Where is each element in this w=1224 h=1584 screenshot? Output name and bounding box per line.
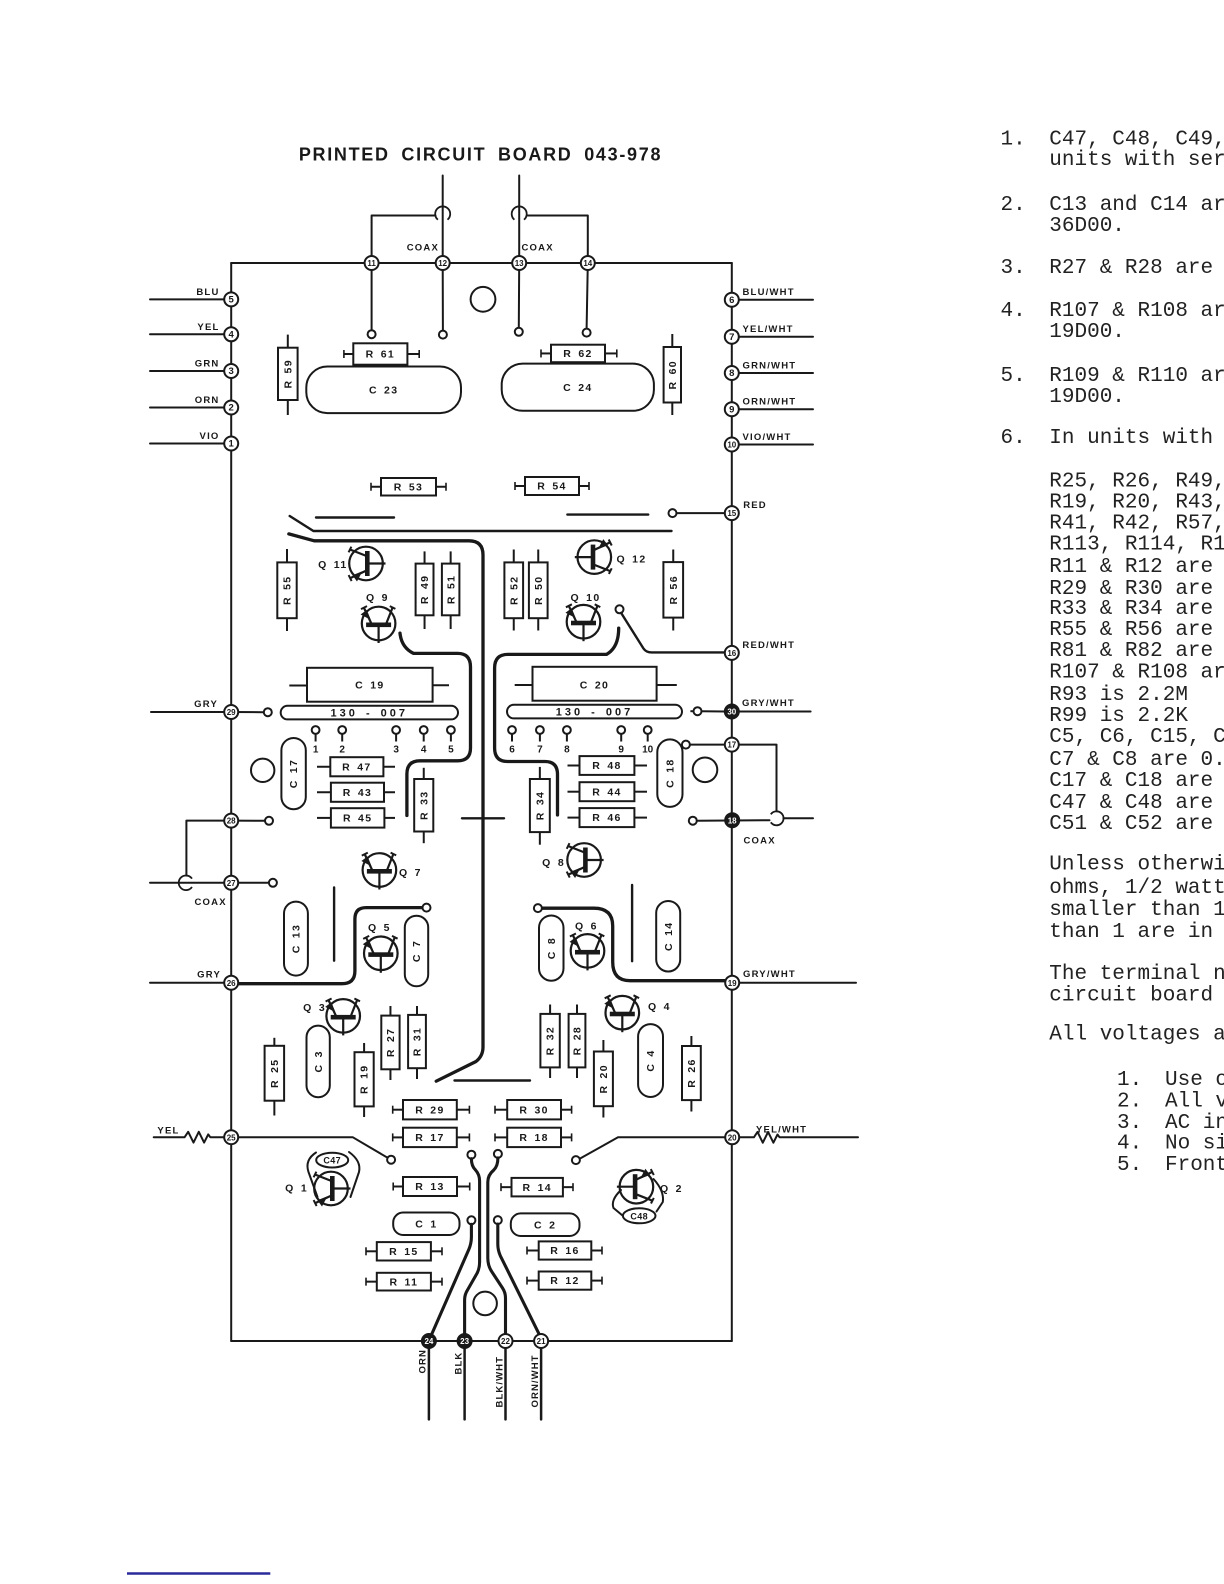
capacitor C1 xyxy=(393,1213,459,1236)
terminal 11 xyxy=(365,256,379,270)
svg-text:R 56: R 56 xyxy=(668,575,680,604)
svg-text:10: 10 xyxy=(727,441,736,450)
svg-text:1: 1 xyxy=(229,439,235,450)
svg-text:R 43: R 43 xyxy=(343,787,372,799)
svg-text:4: 4 xyxy=(229,329,235,340)
svg-text:22: 22 xyxy=(501,1337,510,1346)
terminal 26 xyxy=(224,976,238,990)
resistor R12 xyxy=(527,1272,602,1290)
terminal 10 xyxy=(725,438,739,452)
svg-text:Q 1: Q 1 xyxy=(285,1183,308,1195)
svg-text:R 52: R 52 xyxy=(508,576,520,605)
wire ORN lead xyxy=(150,407,231,409)
transistor Q10 xyxy=(566,592,601,641)
wire ORN/WHT lead down xyxy=(540,1341,543,1419)
wire pad to terminal 16 xyxy=(621,613,725,653)
wire pad to terminal 15 xyxy=(677,512,725,514)
svg-text:24: 24 xyxy=(424,1337,433,1346)
terminal 23 xyxy=(458,1334,472,1348)
wire right S-trace xyxy=(495,628,619,815)
svg-text:R 44: R 44 xyxy=(592,786,621,798)
resistor R14 xyxy=(501,1178,573,1197)
transistor Q12 xyxy=(575,539,647,574)
transistor Q7 xyxy=(361,853,421,890)
svg-text:R27 & R28 are: R27 & R28 are xyxy=(1049,257,1213,280)
wire terminal 25 to pad xyxy=(239,1137,389,1158)
wire pad to terminal 17 xyxy=(690,744,725,746)
svg-text:R11 & R12 are: R11 & R12 are xyxy=(1049,556,1213,579)
svg-text:The terminal n: The terminal n xyxy=(1049,963,1224,986)
capacitor C23 xyxy=(306,367,461,414)
svg-text:8: 8 xyxy=(564,745,570,756)
resistor R15 xyxy=(366,1242,442,1260)
wire BLK lead down xyxy=(463,1341,466,1419)
svg-text:Q 7: Q 7 xyxy=(399,867,422,879)
svg-text:circuit board: circuit board xyxy=(1049,984,1213,1007)
wire COAX lead (27) xyxy=(150,882,224,884)
wire YEL/WHT lead xyxy=(732,336,813,338)
svg-text:12: 12 xyxy=(438,259,447,268)
svg-text:R 46: R 46 xyxy=(592,812,621,824)
resistor R32 xyxy=(540,1005,559,1079)
wire terminal 27 to pad xyxy=(238,882,269,884)
svg-text:COAX: COAX xyxy=(744,836,776,847)
wire trace segment upper-left xyxy=(316,516,394,518)
wire GRN lead xyxy=(150,370,231,372)
svg-text:R 51: R 51 xyxy=(445,575,457,604)
svg-text:R 29: R 29 xyxy=(415,1104,444,1116)
svg-text:2.: 2. xyxy=(1117,1090,1142,1113)
resistor R62 xyxy=(541,345,617,363)
terminal 4 xyxy=(224,327,238,341)
svg-text:C47: C47 xyxy=(323,1156,341,1166)
svg-text:GRN: GRN xyxy=(195,359,220,370)
svg-text:3: 3 xyxy=(229,366,234,377)
svg-text:R 13: R 13 xyxy=(415,1181,444,1193)
svg-text:RED: RED xyxy=(743,500,767,511)
wire BLU lead xyxy=(150,298,231,300)
wire board bottom edge xyxy=(231,1340,732,1342)
capacitor C4 xyxy=(638,1024,663,1097)
terminal 13 xyxy=(512,256,526,270)
coax shield loop left-edge xyxy=(179,876,192,891)
wire terminal 12 stub xyxy=(442,263,444,331)
wire YEL lead with resistor squiggle (25) xyxy=(154,1132,225,1143)
wire coax loop out xyxy=(784,817,814,819)
capacitor C14 xyxy=(656,901,680,972)
wire terminal 20 to pad xyxy=(579,1137,727,1159)
terminal 8 xyxy=(725,366,739,380)
svg-text:ORN/WHT: ORN/WHT xyxy=(743,397,797,408)
wire board top edge xyxy=(231,262,732,264)
terminal 14 xyxy=(581,256,595,270)
svg-text:4.: 4. xyxy=(1117,1132,1142,1155)
capacitor C19 xyxy=(289,668,449,702)
resistor R44 xyxy=(568,782,648,801)
svg-text:25: 25 xyxy=(227,1133,236,1142)
terminal 27 xyxy=(224,876,238,890)
svg-text:R 61: R 61 xyxy=(366,349,395,361)
resistor R49 xyxy=(416,551,434,629)
wire terminal 14 stub xyxy=(587,263,588,329)
resistor R29 xyxy=(393,1100,470,1119)
svg-text:BLK/WHT: BLK/WHT xyxy=(494,1356,505,1408)
svg-text:YEL/WHT: YEL/WHT xyxy=(756,1125,807,1136)
svg-text:29: 29 xyxy=(227,708,236,717)
capacitor C7 xyxy=(405,916,428,987)
svg-text:Q 12: Q 12 xyxy=(617,554,647,566)
wire ORN/WHT lead xyxy=(732,408,813,410)
terminal 17 xyxy=(725,738,739,752)
svg-text:7: 7 xyxy=(537,745,543,756)
svg-text:R109 & R110 ar: R109 & R110 ar xyxy=(1049,365,1224,388)
svg-text:C 17: C 17 xyxy=(288,759,300,788)
coax shield loop right xyxy=(512,206,527,219)
pad 6 xyxy=(508,726,516,755)
pad 4 xyxy=(420,726,428,755)
transistor Q1 xyxy=(285,1172,350,1207)
pad C2 output xyxy=(494,1216,502,1224)
pad 1 xyxy=(312,726,320,755)
svg-text:R 17: R 17 xyxy=(415,1132,444,1144)
svg-text:C 3: C 3 xyxy=(313,1050,325,1072)
capacitor C18 xyxy=(657,739,682,807)
wire trace to terminal 24 xyxy=(432,1224,472,1334)
svg-text:R 55: R 55 xyxy=(282,576,294,605)
wire terminal 13 stub xyxy=(518,263,520,328)
resistor R60 xyxy=(664,334,681,415)
svg-text:AC in: AC in xyxy=(1165,1112,1224,1135)
terminal 29 xyxy=(224,705,238,719)
svg-text:23: 23 xyxy=(460,1337,469,1346)
terminal 21 xyxy=(534,1334,548,1348)
wire trace to terminal 21 xyxy=(498,1224,539,1334)
wire left S-trace xyxy=(400,633,471,815)
svg-text:units with ser: units with ser xyxy=(1049,149,1224,172)
svg-text:R 60: R 60 xyxy=(667,360,679,389)
wire coax loop to terminal 14 xyxy=(527,216,588,264)
svg-text:6: 6 xyxy=(509,745,515,756)
transistor Q11 xyxy=(318,547,385,582)
wire long horizontal trace xyxy=(290,516,672,531)
svg-text:R33 & R34 are: R33 & R34 are xyxy=(1049,598,1213,621)
svg-text:R 20: R 20 xyxy=(598,1064,610,1093)
capacitor C13 xyxy=(284,902,308,976)
connector strip 130-007 left xyxy=(281,706,458,720)
terminal 30 xyxy=(725,705,739,719)
transistor Q8 xyxy=(542,843,603,878)
svg-text:C 20: C 20 xyxy=(580,679,609,691)
svg-text:R 15: R 15 xyxy=(389,1246,418,1258)
svg-text:Q 11: Q 11 xyxy=(318,559,347,571)
svg-text:28: 28 xyxy=(227,817,236,826)
resistor R56 xyxy=(663,550,683,631)
svg-text:21: 21 xyxy=(537,1337,546,1346)
capacitor C8 xyxy=(539,916,564,981)
resistor R43 xyxy=(317,783,395,802)
terminal 7 xyxy=(725,330,739,344)
svg-text:ORN: ORN xyxy=(195,395,220,406)
svg-text:10: 10 xyxy=(642,745,654,756)
svg-text:6: 6 xyxy=(729,295,734,306)
capacitor C2 xyxy=(511,1213,580,1236)
pad under terminal 13 xyxy=(515,328,523,336)
svg-text:R107 & R108 ar: R107 & R108 ar xyxy=(1049,662,1224,685)
wire terminal 17 to coax loop xyxy=(739,745,777,812)
pad at terminal 27 xyxy=(269,879,277,887)
svg-text:BLU: BLU xyxy=(196,287,219,298)
resistor R53 xyxy=(371,478,446,496)
resistor R27 xyxy=(381,1006,399,1080)
pad 3 xyxy=(392,726,400,755)
svg-text:8: 8 xyxy=(729,368,734,379)
wire center cross segment xyxy=(462,817,504,819)
wire ORN lead down xyxy=(428,1341,431,1419)
svg-text:11: 11 xyxy=(367,259,376,268)
svg-text:In units with: In units with xyxy=(1049,427,1213,450)
wire GRY lead (26) xyxy=(150,982,231,984)
capacitor C17 xyxy=(281,738,305,809)
pad 5 xyxy=(447,726,455,755)
svg-text:R25, R26, R49,: R25, R26, R49, xyxy=(1049,471,1224,494)
wire coax feed right vertical xyxy=(518,176,520,264)
wire terminal 28 to pad xyxy=(231,820,265,822)
terminal 28 xyxy=(224,814,238,828)
svg-text:1.: 1. xyxy=(1117,1069,1142,1092)
svg-text:C 1: C 1 xyxy=(415,1219,437,1231)
svg-text:R 14: R 14 xyxy=(523,1182,552,1194)
wire VIO lead xyxy=(150,443,231,445)
resistor R33 xyxy=(414,768,433,843)
svg-text:Front: Front xyxy=(1165,1154,1224,1177)
svg-text:R 18: R 18 xyxy=(519,1132,548,1144)
terminal 22 xyxy=(499,1334,513,1348)
wire terminal 26 trace xyxy=(238,908,422,984)
transistor Q3 xyxy=(303,999,360,1036)
svg-text:4.: 4. xyxy=(1001,300,1026,323)
resistor R54 xyxy=(515,477,589,495)
resistor R13 xyxy=(393,1177,470,1196)
svg-text:C17 & C18 are: C17 & C18 are xyxy=(1049,770,1213,793)
wire trace segment upper-right xyxy=(567,513,648,515)
svg-text:All v: All v xyxy=(1165,1090,1224,1113)
svg-text:R55 & R56 are: R55 & R56 are xyxy=(1049,619,1213,642)
wire pad to terminal 18 xyxy=(697,819,770,822)
svg-text:R 49: R 49 xyxy=(419,575,431,604)
wire pad to terminal 30 xyxy=(702,710,725,712)
wire trace to terminal 23 xyxy=(465,1159,480,1334)
resistor R61 xyxy=(344,343,419,364)
svg-text:R 19: R 19 xyxy=(359,1065,371,1094)
svg-text:R 31: R 31 xyxy=(412,1027,424,1056)
capacitor C48 xyxy=(623,1208,656,1223)
svg-text:R 27: R 27 xyxy=(385,1028,397,1057)
svg-text:VIO: VIO xyxy=(200,431,220,442)
svg-text:C48: C48 xyxy=(630,1211,648,1221)
blue underline mark bottom left xyxy=(127,1572,270,1575)
svg-text:COAX: COAX xyxy=(195,897,227,908)
pad Q6 feed xyxy=(534,904,542,912)
svg-text:C13 and C14 ar: C13 and C14 ar xyxy=(1049,194,1224,217)
svg-text:C 14: C 14 xyxy=(663,922,675,951)
svg-text:Q 4: Q 4 xyxy=(648,1001,671,1013)
wire center cross segment lower xyxy=(455,1079,531,1081)
svg-text:130 - 007: 130 - 007 xyxy=(331,708,408,720)
svg-text:Q 6: Q 6 xyxy=(575,921,598,933)
svg-text:GRY/WHT: GRY/WHT xyxy=(742,698,795,709)
svg-text:YEL/WHT: YEL/WHT xyxy=(743,324,794,335)
resistor R31 xyxy=(408,1006,426,1079)
wire VIO/WHT lead xyxy=(732,444,813,446)
terminal 19 xyxy=(725,976,739,990)
resistor R26 xyxy=(682,1036,701,1112)
svg-text:27: 27 xyxy=(227,879,236,888)
svg-text:VIO/WHT: VIO/WHT xyxy=(743,432,792,443)
resistor R28 xyxy=(569,1005,586,1079)
svg-text:RED/WHT: RED/WHT xyxy=(742,640,795,651)
pad under terminal 12 xyxy=(439,331,447,339)
svg-text:R 32: R 32 xyxy=(545,1026,557,1055)
pad C1 output xyxy=(467,1216,475,1224)
wire BLK/WHT lead down xyxy=(504,1341,507,1419)
svg-text:R 28: R 28 xyxy=(572,1026,584,1055)
svg-text:1: 1 xyxy=(313,745,319,756)
pad RED feed xyxy=(669,509,677,517)
svg-text:Q 10: Q 10 xyxy=(571,592,601,604)
svg-text:than 1 are in: than 1 are in xyxy=(1049,921,1213,944)
svg-text:R 50: R 50 xyxy=(533,576,545,605)
svg-text:17: 17 xyxy=(727,741,736,750)
wire terminal 19 trace xyxy=(542,908,727,981)
svg-text:Use o: Use o xyxy=(1165,1069,1224,1092)
svg-text:5.: 5. xyxy=(1001,365,1026,388)
wire center trace xyxy=(289,534,483,1081)
resistor R47 xyxy=(317,757,395,776)
svg-text:C 7: C 7 xyxy=(411,940,423,962)
terminal 15 xyxy=(725,506,739,520)
resistor R18 xyxy=(495,1128,572,1147)
wire YEL lead xyxy=(150,333,231,335)
svg-text:Q 5: Q 5 xyxy=(368,922,391,934)
svg-text:R 59: R 59 xyxy=(282,359,294,388)
svg-text:R 26: R 26 xyxy=(686,1058,698,1087)
svg-text:Unless otherwi: Unless otherwi xyxy=(1049,853,1224,876)
mounting hole left xyxy=(251,759,274,782)
wire terminal 29 to pad xyxy=(231,711,264,713)
svg-text:C 23: C 23 xyxy=(369,385,398,397)
svg-text:3.: 3. xyxy=(1001,257,1026,280)
transistor Q9 xyxy=(361,592,396,643)
svg-text:R113, R114, R1: R113, R114, R1 xyxy=(1049,534,1224,557)
svg-text:C5, C6, C15, C: C5, C6, C15, C xyxy=(1049,726,1224,749)
pad driver left emitter xyxy=(467,1151,475,1159)
svg-text:R 30: R 30 xyxy=(519,1104,548,1116)
pad 7 xyxy=(536,726,544,755)
coax shield loop right-edge xyxy=(771,811,784,825)
resistor R19 xyxy=(355,1043,374,1117)
svg-text:Q 2: Q 2 xyxy=(660,1183,683,1195)
terminal 16 xyxy=(725,646,739,660)
pad under terminal 14 xyxy=(583,329,591,337)
pad 10 xyxy=(642,726,654,755)
wire board right edge xyxy=(731,263,733,1341)
resistor R46 xyxy=(568,808,648,827)
svg-text:R 25: R 25 xyxy=(269,1059,281,1088)
wire YEL/WHT lead with resistor squiggle (20) xyxy=(740,1132,858,1143)
svg-text:5: 5 xyxy=(229,295,235,306)
pad at terminal 17 xyxy=(682,741,690,749)
pad at terminal 28 xyxy=(265,817,273,825)
wire board left edge xyxy=(230,263,232,1341)
terminal 3 xyxy=(224,364,238,378)
svg-text:GRN/WHT: GRN/WHT xyxy=(743,361,797,372)
terminal 1 xyxy=(224,437,238,451)
svg-text:C7 & C8 are 0.: C7 & C8 are 0. xyxy=(1049,749,1224,772)
wire GRY/WHT lead (30) xyxy=(732,711,811,713)
wire GRN/WHT lead xyxy=(732,372,813,374)
svg-text:PRINTED CIRCUIT BOARD 043-978: PRINTED CIRCUIT BOARD 043-978 xyxy=(299,145,662,165)
pad Q10 collector xyxy=(616,605,624,613)
wire terminal 11 stub xyxy=(371,263,373,330)
transistor Q5 xyxy=(363,922,398,973)
svg-text:R 11: R 11 xyxy=(389,1276,418,1288)
svg-text:R41, R42, R57,: R41, R42, R57, xyxy=(1049,513,1224,536)
svg-text:C 4: C 4 xyxy=(645,1049,657,1071)
wire stub segment left xyxy=(333,887,335,960)
terminal 2 xyxy=(224,401,238,415)
svg-text:R 47: R 47 xyxy=(342,761,371,773)
terminal 12 xyxy=(436,256,450,270)
resistor R55 xyxy=(277,549,296,631)
svg-text:19: 19 xyxy=(728,979,737,988)
svg-text:R99 is 2.2K: R99 is 2.2K xyxy=(1049,705,1188,728)
svg-text:19D00.: 19D00. xyxy=(1049,321,1125,344)
pad 9 xyxy=(617,726,625,755)
svg-text:R93 is 2.2M: R93 is 2.2M xyxy=(1049,684,1188,707)
svg-text:R81 & R82 are: R81 & R82 are xyxy=(1049,640,1213,663)
terminal 24 xyxy=(422,1334,436,1348)
mounting hole bottom xyxy=(473,1292,497,1316)
wire stub segment right xyxy=(631,885,633,961)
svg-text:ORN: ORN xyxy=(418,1349,429,1373)
coax shield loop left xyxy=(435,206,450,219)
svg-text:R 33: R 33 xyxy=(418,791,430,820)
pad at terminal 30 xyxy=(694,707,702,715)
svg-text:R19, R20, R43,: R19, R20, R43, xyxy=(1049,492,1224,515)
svg-text:C 8: C 8 xyxy=(546,937,558,959)
svg-text:ohms, 1/2 watt: ohms, 1/2 watt xyxy=(1049,877,1224,900)
pad at terminal 29 xyxy=(264,708,272,716)
svg-text:16: 16 xyxy=(727,649,736,658)
svg-text:YEL: YEL xyxy=(197,322,219,333)
svg-text:GRY: GRY xyxy=(194,699,218,710)
resistor R11 xyxy=(366,1273,442,1291)
svg-text:R 45: R 45 xyxy=(343,813,372,825)
svg-text:13: 13 xyxy=(515,259,524,268)
resistor R59 xyxy=(278,335,298,415)
svg-text:26: 26 xyxy=(227,979,236,988)
resistor R50 xyxy=(529,550,548,631)
svg-text:R 62: R 62 xyxy=(563,348,592,360)
pad 8 xyxy=(563,726,571,755)
terminal 6 xyxy=(725,293,739,307)
svg-text:9: 9 xyxy=(618,745,624,756)
wire trace to terminal 22 xyxy=(488,1158,506,1334)
svg-text:5: 5 xyxy=(448,745,454,756)
transistor Q4 xyxy=(604,995,671,1032)
svg-text:No si: No si xyxy=(1165,1132,1224,1155)
transistor Q2 xyxy=(617,1169,683,1204)
